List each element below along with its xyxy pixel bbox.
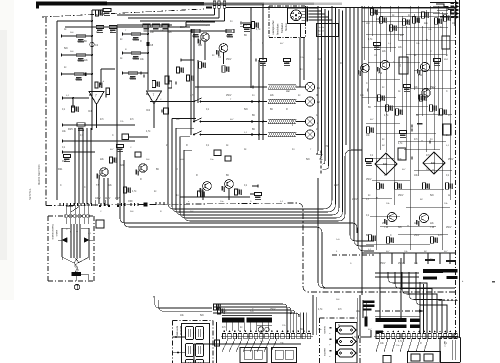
svg-text:250V: 250V	[382, 223, 388, 225]
svg-text:R18: R18	[62, 160, 67, 163]
svg-text:BC: BC	[300, 329, 304, 331]
svg-text:L: L	[328, 333, 330, 334]
svg-text:BC: BC	[270, 109, 274, 111]
svg-text:MAINS: MAINS	[55, 230, 58, 237]
svg-text:7: 7	[95, 94, 97, 98]
svg-text:L: L	[328, 356, 330, 357]
svg-text:BC: BC	[156, 169, 160, 171]
svg-text:R31: R31	[192, 35, 197, 38]
svg-text:BC: BC	[382, 145, 385, 147]
svg-text:ABSTIMM: ABSTIMM	[176, 326, 179, 336]
svg-text:B30: B30	[431, 162, 436, 165]
svg-text:R15: R15	[68, 128, 73, 131]
svg-text:470k: 470k	[129, 78, 135, 81]
svg-text:stereo: stereo	[291, 119, 294, 126]
svg-text:dial: dial	[286, 91, 290, 93]
svg-text:250V: 250V	[398, 263, 404, 265]
svg-text:IC2: IC2	[146, 108, 151, 112]
svg-text:250V: 250V	[430, 87, 436, 89]
svg-text:TRANSFORMER: TRANSFORMER	[51, 224, 54, 240]
svg-text:BC: BC	[252, 129, 256, 131]
svg-text:LAMPEN: LAMPEN	[323, 348, 326, 357]
svg-text:250V: 250V	[366, 179, 372, 181]
svg-text:Tonband: Tonband	[281, 23, 284, 33]
svg-text:BC: BC	[226, 175, 230, 177]
svg-text:250V: 250V	[226, 95, 232, 97]
svg-text:BC: BC	[252, 115, 256, 117]
svg-text:470k: 470k	[75, 79, 81, 82]
svg-text:250V: 250V	[414, 235, 420, 237]
svg-text:BC: BC	[368, 107, 372, 109]
svg-text:250V: 250V	[334, 185, 340, 187]
svg-text:L: L	[328, 345, 330, 346]
svg-text:BC: BC	[420, 199, 423, 201]
svg-text:T11: T11	[418, 74, 423, 77]
svg-text:250V: 250V	[448, 159, 454, 161]
svg-text:250V: 250V	[398, 195, 404, 197]
svg-text:BC: BC	[244, 35, 248, 37]
svg-text:470k: 470k	[132, 58, 138, 61]
svg-text:T10: T10	[378, 72, 383, 75]
svg-text:250V: 250V	[380, 263, 386, 265]
svg-text:250V: 250V	[446, 227, 452, 229]
svg-text:MAINS SECTION: MAINS SECTION	[37, 164, 41, 185]
svg-text:250V: 250V	[180, 27, 186, 29]
svg-text:R35: R35	[226, 35, 231, 38]
svg-text:BC: BC	[84, 41, 88, 43]
svg-text:BC: BC	[366, 235, 370, 237]
svg-text:R21: R21	[58, 168, 63, 171]
svg-text:B30: B30	[383, 163, 388, 166]
svg-text:NETZTEIL: NETZTEIL	[29, 188, 32, 200]
svg-text:250V: 250V	[352, 199, 358, 201]
svg-text:T14: T14	[384, 226, 389, 229]
svg-text:Stecker: Stecker	[285, 23, 288, 31]
svg-text:2N: 2N	[374, 55, 377, 57]
svg-text:OFF: OFF	[128, 200, 133, 203]
svg-text:470k: 470k	[77, 60, 83, 63]
svg-text:Lautsprecher: Lautsprecher	[272, 20, 275, 35]
svg-text:470k: 470k	[77, 41, 83, 44]
svg-text:se: se	[76, 231, 78, 233]
svg-text:T15: T15	[430, 226, 435, 229]
svg-text:250V: 250V	[226, 59, 232, 61]
svg-text:100V: 100V	[95, 197, 101, 200]
svg-text:SKALEN: SKALEN	[323, 326, 326, 334]
svg-text:Anschluss: Anschluss	[277, 23, 280, 35]
svg-text:BC: BC	[416, 115, 420, 117]
svg-text:IC1: IC1	[88, 109, 93, 113]
svg-text:470k: 470k	[132, 39, 138, 42]
svg-text:250V: 250V	[270, 309, 276, 311]
svg-text:117V: 117V	[105, 197, 111, 200]
svg-text:7: 7	[153, 93, 155, 97]
